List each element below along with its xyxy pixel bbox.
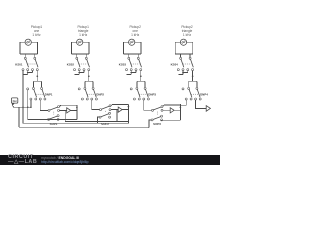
wire DNP1 terminal down to rail 1 — [27, 90, 29, 120]
svg-text:SOP1: SOP1 — [50, 122, 58, 126]
svg-text:DNP3: DNP3 — [148, 93, 156, 97]
switch SOP1 pole A throws — [58, 106, 60, 112]
switch DNP1 throw terminals — [30, 98, 46, 100]
svg-text:KS03: KS03 — [119, 63, 127, 67]
switch DNP3 throw terminals — [133, 98, 149, 100]
buffer U2 output wire — [122, 109, 128, 111]
wire loop around pickup V4 — [175, 42, 193, 54]
svg-text:1 kHz: 1 kHz — [32, 33, 41, 37]
svg-text:1 kHz: 1 kHz — [131, 33, 140, 37]
output arrow flag — [206, 106, 210, 112]
switch KS03 pole B — [137, 57, 141, 67]
switch DNP1 pole B — [41, 87, 45, 97]
wire stubs from pickup V2 to switch KS02 — [77, 54, 87, 57]
wire over buffer from SOP2 upper throw (col 2) — [111, 104, 129, 105]
buffer amplifier U3 — [170, 108, 174, 113]
wire DNP4 throw down-left to col3 top wire — [180, 100, 186, 105]
junction dot col 1 fork stem — [37, 75, 39, 77]
switch DNP3 pole B — [144, 87, 148, 97]
switch SOP3 pole A — [152, 107, 162, 111]
wire fork to DNP1 commons (col 1) — [33, 81, 41, 87]
switch SOP2 gang link — [104, 111, 106, 112]
junction dot col 2 series link — [78, 72, 80, 74]
wire rail 3 jog up to SOP3 pole B — [149, 120, 151, 128]
wire col2 buffer input riser — [116, 110, 118, 122]
switch SOP2 pole B — [99, 114, 109, 118]
svg-text:DNP2: DNP2 — [96, 93, 104, 97]
switch KS02 gang link — [79, 63, 87, 65]
wire series link KS03 throws (col 3) — [127, 70, 137, 74]
wire KS02 throw D down to fork (col 2) — [88, 70, 90, 81]
wire stubs from pickup V4 to switch KS04 — [181, 54, 191, 57]
wire DNP1 throw to SOP1 pole A (col 1) — [40, 100, 48, 111]
switch DNP2 extra terminal — [78, 88, 80, 90]
wire fork to DNP2 commons (col 2) — [85, 81, 93, 87]
junction dot col 3 fork stem — [140, 75, 142, 77]
buffer amplifier U2 — [118, 107, 122, 112]
wire col3 throw to buffer output drop — [160, 119, 162, 122]
svg-text:SOP3: SOP3 — [153, 122, 161, 126]
switch SOP1 pole B — [48, 116, 58, 120]
rail 3 (Out bus) — [19, 127, 149, 129]
switch SOP1 gang link — [53, 112, 55, 115]
switch DNP1 gang link — [36, 93, 43, 95]
wire col1 buffer input riser — [64, 110, 66, 121]
junction dot col 1 series link — [27, 72, 29, 74]
switch DNP2 gang link — [87, 93, 94, 95]
svg-text:SOP2: SOP2 — [101, 122, 109, 126]
wire fork to DNP3 commons (col 3) — [137, 81, 145, 87]
switch SOP1 pole B throws — [57, 115, 59, 121]
wire over buffer from SOP3 upper throw (col 3) — [163, 105, 181, 106]
switch KS01 pole B — [34, 57, 38, 67]
svg-text:KS01: KS01 — [15, 63, 23, 67]
switch DNP4 pole B — [196, 87, 200, 97]
junction dot col 2 fork stem — [88, 75, 90, 77]
wire loop around pickup V3 — [123, 42, 141, 54]
wire DNP4 throw to output arrow — [196, 100, 207, 109]
wire chain horizontal col1-col2 — [65, 121, 128, 123]
switch SOP3 pole B — [151, 117, 161, 121]
wire stubs from pickup V3 to switch KS03 — [129, 54, 139, 57]
switch KS03 throw terminals — [126, 69, 142, 71]
buffer U3 output wire — [174, 109, 180, 111]
junction dot col 3 series link — [130, 72, 132, 74]
wire KS01 throw D down to fork (col 1) — [36, 70, 38, 81]
wire col2 buffer output drop — [127, 104, 129, 123]
switch DNP2 pole B — [92, 87, 96, 97]
svg-text:KS04: KS04 — [171, 63, 179, 67]
svg-text:DNP1: DNP1 — [45, 93, 53, 97]
switch KS03 pole A — [128, 57, 132, 67]
switch SOP2 pole A — [100, 106, 110, 110]
switch SOP3 gang link — [156, 112, 158, 115]
wire col2 SOP2 pole B jog from rail 2 — [98, 117, 100, 123]
wire col1 buffer output drop — [76, 105, 78, 119]
switch DNP2 pole A — [84, 87, 88, 97]
junction dots on output bus B1 — [22, 106, 32, 108]
svg-text:KS02: KS02 — [67, 63, 75, 67]
junction dot buffer U2 output — [128, 106, 130, 108]
wire over buffer from SOP1 upper throw (col 1) — [59, 105, 77, 106]
wire loop around pickup V1 — [20, 42, 38, 54]
wire DNP2 throw to SOP2 pole A (col 2) — [92, 100, 100, 110]
wire KS03 throw D down to fork (col 3) — [140, 70, 142, 81]
buffer amplifier U1 — [67, 108, 71, 113]
switch KS04 throw terminals — [177, 69, 193, 71]
wire KS04 throw D down to fork (col 4) — [192, 70, 194, 81]
switch SOP3 pole B throws — [161, 115, 163, 121]
switch DNP3 extra terminal — [130, 88, 132, 90]
switch DNP4 gang link — [191, 93, 198, 95]
label pickup V1 name — [31, 25, 43, 37]
switch DNP3 gang link — [139, 93, 146, 95]
wire DNP1 throw down to bus B1 — [30, 100, 32, 107]
wire series link KS02 throws (col 2) — [75, 70, 85, 74]
wire fork to DNP4 commons (col 4) — [189, 81, 197, 87]
switch SOP2 pole B throws — [109, 112, 111, 118]
junction dot col 4 fork stem — [192, 75, 194, 77]
wire stubs from pickup V1 to switch KS01 — [25, 54, 35, 57]
switch KS03 gang link — [131, 63, 139, 65]
label pickup V2 name — [78, 25, 90, 37]
rail 1 (col1 lower) — [28, 118, 77, 120]
switch SOP3 pole A throws — [161, 106, 163, 112]
wire DNP3 throw to SOP3 pole A (col 3) — [144, 100, 152, 110]
switch KS01 gang link — [28, 63, 36, 65]
svg-text:DNP4: DNP4 — [200, 93, 208, 97]
output flag "Out" — [11, 98, 17, 106]
switch DNP1 pole A — [32, 87, 36, 97]
junction dot buffer U3 output — [180, 107, 182, 109]
switch KS01 throw terminals — [22, 69, 38, 71]
switch DNP4 pole A — [188, 87, 192, 97]
wire KS01 throw A vertical down to rail 2 — [22, 70, 24, 123]
label pickup V4 name — [181, 25, 193, 37]
svg-text:Out: Out — [13, 100, 17, 103]
switch KS02 throw terminals — [74, 69, 90, 71]
wire series link KS01 throws (col 1) — [23, 70, 33, 74]
switch SOP1 pole A — [48, 107, 58, 111]
wire series link KS04 throws (col 4) — [178, 70, 188, 74]
switch DNP4 throw terminals — [185, 98, 201, 100]
wire drop to rail 3 — [18, 107, 20, 127]
wire col3 buffer output drop — [179, 104, 181, 120]
voltage source V2 (Pickup1 triangle 1 kHz) — [77, 39, 83, 45]
wire loop around pickup V2 — [71, 42, 89, 54]
switch KS02 pole B — [85, 57, 89, 67]
junction dot buffer U1 output — [76, 107, 78, 109]
voltage source V3 (Pickup2 one 1 kHz) — [129, 39, 135, 45]
voltage source V1 (Pickup1 one 1 kHz) — [25, 39, 31, 45]
footer bar — [0, 155, 220, 165]
switch KS02 pole A — [76, 57, 80, 67]
switch DNP4 extra terminal — [182, 88, 184, 90]
buffer amplifier input wire (col 1) — [59, 109, 66, 111]
buffer amplifier input wire (col 3) — [163, 109, 170, 111]
switch KS04 gang link — [183, 63, 191, 65]
switch KS04 pole A — [180, 57, 184, 67]
buffer U1 output wire — [71, 109, 77, 111]
switch KS01 pole A — [24, 57, 28, 67]
voltage source V4 (Pickup2 triangle 1 kHz) — [180, 39, 186, 45]
switch DNP1 extra terminal — [27, 88, 29, 90]
switch KS04 pole B — [189, 57, 193, 67]
wire bus B1 (Out net horizontal) — [13, 105, 31, 107]
switch SOP2 pole A throws — [109, 105, 111, 111]
rail 2 (col2 lower) — [23, 122, 128, 124]
switch DNP3 pole A — [136, 87, 140, 97]
svg-text:1 kHz: 1 kHz — [183, 33, 192, 37]
junction dot col 4 series link — [182, 72, 184, 74]
buffer amplifier input wire (col 2) — [111, 109, 118, 111]
label pickup V3 name — [130, 25, 142, 37]
svg-text:1 kHz: 1 kHz — [79, 33, 88, 37]
switch DNP2 throw terminals — [81, 98, 97, 100]
